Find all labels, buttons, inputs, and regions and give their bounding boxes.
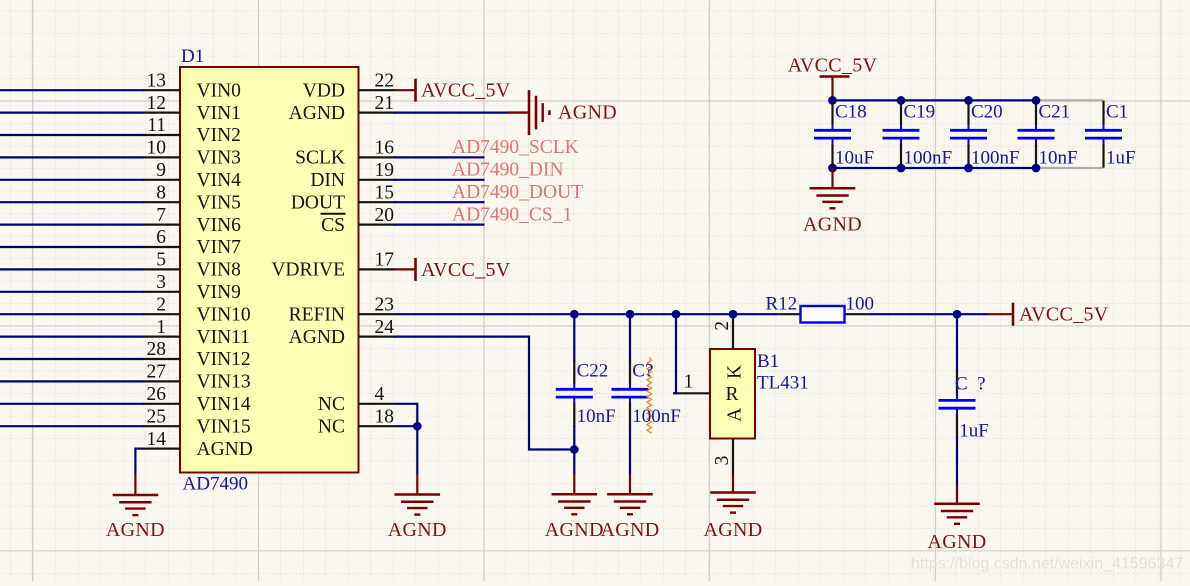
- IC D1 right pin 15 (DOUT): [291, 182, 396, 213]
- wire to VIN8 from left edge: [0, 268, 144, 270]
- svg-text:VIN13: VIN13: [197, 372, 251, 393]
- svg-text:VIN8: VIN8: [197, 260, 241, 281]
- svg-text:C ?: C ?: [955, 374, 986, 395]
- svg-text:24: 24: [375, 317, 395, 338]
- IC D1 right pin 22 (VDD): [303, 70, 396, 101]
- IC D1 left pin 14 (AGND): [143, 429, 253, 460]
- svg-text:1: 1: [156, 317, 166, 338]
- svg-text:NC: NC: [318, 394, 345, 415]
- wire AGND pin14 to ground: [135, 449, 144, 475]
- capacitor C21: [1018, 101, 1055, 168]
- resistor R12 left pin: [778, 313, 800, 315]
- svg-text:17: 17: [375, 250, 395, 271]
- svg-text:C18: C18: [835, 102, 867, 123]
- svg-text:AGND: AGND: [106, 519, 165, 541]
- svg-text:4: 4: [375, 384, 385, 405]
- svg-text:3: 3: [156, 272, 166, 293]
- IC D1 left pin 28 (VIN12): [143, 339, 251, 370]
- junction on REFIN rail x=574.3: [570, 310, 579, 319]
- wire to VIN1 from left edge: [0, 111, 144, 113]
- wire to VIN3 from left edge: [0, 156, 144, 158]
- ground AGND at NC pins: [395, 495, 441, 515]
- svg-text:TL431: TL431: [757, 373, 809, 394]
- wire to VIN15 from left edge: [0, 425, 144, 427]
- junction top rail at C20: [964, 96, 973, 105]
- svg-text:AD7490: AD7490: [183, 474, 248, 495]
- IC D1 left pin 25 (VIN15): [143, 406, 251, 437]
- wire to VIN14 from left edge: [0, 403, 144, 405]
- wire to VIN2 from left edge: [0, 134, 144, 136]
- ground AGND at C? 1uF: [934, 504, 980, 524]
- ground lead TL431: [732, 475, 734, 493]
- capacitor C? (100nF): [612, 360, 649, 427]
- wire junction down to C? 1uF: [956, 314, 958, 372]
- ground AGND at TL431: [710, 493, 756, 513]
- svg-text:25: 25: [147, 406, 167, 427]
- capacitor C20: [950, 101, 987, 168]
- wire AD7490_CS_1: [394, 224, 485, 226]
- IC D1 right pin 21 (AGND): [289, 93, 396, 124]
- capacitor C19: [883, 101, 920, 168]
- svg-text:2: 2: [156, 294, 166, 315]
- svg-text:AD7490_CS_1: AD7490_CS_1: [452, 204, 572, 225]
- svg-text:AD7490_SCLK: AD7490_SCLK: [452, 137, 579, 158]
- power port AVCC_5V at VDD: [416, 79, 511, 102]
- IC D1 right pin 19 (DIN): [310, 160, 395, 191]
- svg-text:A: A: [724, 408, 745, 422]
- svg-text:CS: CS: [321, 215, 345, 236]
- wire to VIN10 from left edge: [0, 313, 144, 315]
- svg-text:NC: NC: [318, 416, 345, 437]
- capacitor C22: [556, 360, 593, 427]
- junction bottom rail at C19: [897, 164, 906, 173]
- svg-text:VIN2: VIN2: [197, 125, 241, 146]
- junction top rail at C18: [828, 96, 837, 105]
- wire REFIN down to C22: [573, 314, 575, 361]
- wire C22 lower: [573, 425, 575, 474]
- IC D1 left pin 1 (VIN11): [143, 317, 250, 348]
- junction top rail at C19: [897, 96, 906, 105]
- svg-text:VIN12: VIN12: [197, 349, 251, 370]
- IC D1 left pin 10 (VIN3): [143, 138, 241, 169]
- TL431 pin 1 (R, ref): [673, 371, 739, 405]
- ground AGND at C22: [552, 494, 598, 514]
- wire AD7490_DIN: [394, 179, 485, 181]
- svg-text:C1: C1: [1106, 102, 1128, 123]
- svg-text:19: 19: [375, 160, 395, 181]
- svg-text:AGND: AGND: [545, 519, 604, 541]
- junction on REFIN rail x=733: [729, 310, 738, 319]
- svg-text:C20: C20: [971, 102, 1003, 123]
- svg-text:1uF: 1uF: [959, 421, 989, 442]
- svg-text:26: 26: [147, 384, 167, 405]
- svg-text:C21: C21: [1039, 102, 1071, 123]
- svg-text:AVCC_5V: AVCC_5V: [1019, 304, 1109, 326]
- TL431 pin 2 (K, cathode): [712, 317, 745, 379]
- junction NC pins: [413, 422, 422, 431]
- junction bottom rail at C21: [1032, 164, 1041, 173]
- svg-text:VIN0: VIN0: [197, 80, 241, 101]
- resistor R12: [801, 306, 845, 323]
- svg-text:VIN1: VIN1: [197, 103, 241, 124]
- IC D1 right pin 4 (NC): [318, 384, 396, 415]
- wire C? lower: [629, 425, 631, 474]
- svg-text:100nF: 100nF: [904, 148, 953, 169]
- wire to VIN13 from left edge: [0, 380, 144, 382]
- IC D1 left pin 9 (VIN4): [143, 160, 241, 191]
- svg-text:R12: R12: [766, 294, 798, 315]
- svg-text:27: 27: [147, 362, 167, 383]
- wire bottom rail C21-C1 (gray): [1036, 167, 1104, 169]
- svg-text:10nF: 10nF: [1039, 148, 1078, 169]
- junction top rail at C21: [1032, 96, 1041, 105]
- svg-text:2: 2: [712, 321, 733, 331]
- svg-text:VIN5: VIN5: [197, 192, 241, 213]
- IC D1 left pin 26 (VIN14): [143, 384, 251, 415]
- IC D1 left pin 5 (VIN8): [143, 250, 241, 281]
- IC D1 left pin 13 (VIN0): [143, 70, 241, 101]
- IC D1 left pin 6 (VIN7): [143, 227, 241, 258]
- svg-text:100nF: 100nF: [971, 148, 1020, 169]
- svg-text:AGND: AGND: [289, 327, 345, 348]
- svg-text:AVCC_5V: AVCC_5V: [421, 80, 511, 102]
- svg-text:https://blog.csdn.net/weixin_4: https://blog.csdn.net/weixin_41596347: [911, 555, 1183, 572]
- svg-text:C19: C19: [904, 102, 936, 123]
- power port AVCC_5V right: [1013, 303, 1109, 326]
- svg-text:100nF: 100nF: [632, 406, 681, 427]
- wire C? 1uF lower: [956, 436, 958, 486]
- IC D1 right pin 20 (CS): [321, 205, 396, 236]
- IC D1 left pin 7 (VIN6): [143, 205, 241, 236]
- svg-text:R: R: [725, 384, 738, 405]
- IC D1 left pin 8 (VIN5): [143, 182, 241, 213]
- svg-text:REFIN: REFIN: [289, 304, 345, 325]
- svg-text:10: 10: [147, 138, 167, 159]
- ground lead C22: [573, 474, 575, 494]
- svg-text:23: 23: [375, 294, 395, 315]
- wire to VIN11 from left edge: [0, 336, 144, 338]
- svg-text:7: 7: [156, 205, 166, 226]
- regulator B1 TL431 body: [710, 349, 755, 439]
- svg-text:VIN14: VIN14: [197, 394, 251, 415]
- ground lead NC: [416, 474, 418, 495]
- IC D1 left pin 12 (VIN1): [143, 93, 241, 124]
- svg-text:D1: D1: [181, 46, 204, 67]
- IC D1 left pin 27 (VIN13): [143, 362, 251, 393]
- svg-text:10uF: 10uF: [835, 148, 874, 169]
- svg-text:5: 5: [156, 250, 166, 271]
- svg-text:DOUT: DOUT: [291, 192, 345, 213]
- wire top rail C21-C1 (gray): [1036, 99, 1104, 101]
- svg-text:B1: B1: [757, 351, 779, 372]
- ground lead C?: [629, 474, 631, 494]
- svg-text:10nF: 10nF: [577, 406, 616, 427]
- ground lead at pin14: [134, 474, 136, 495]
- svg-text:VIN3: VIN3: [197, 148, 241, 169]
- wire VDD pin22 to AVCC_5V: [396, 89, 415, 91]
- svg-text:VIN6: VIN6: [197, 215, 242, 236]
- svg-text:14: 14: [147, 429, 167, 450]
- svg-text:AGND: AGND: [803, 214, 862, 236]
- svg-text:28: 28: [147, 339, 167, 360]
- IC D1 right pin 24 (AGND): [289, 317, 396, 348]
- wire REFIN rail left segment: [396, 313, 779, 315]
- svg-text:9: 9: [156, 160, 166, 181]
- svg-text:AVCC_5V: AVCC_5V: [788, 55, 878, 77]
- junction bottom rail at C20: [964, 164, 973, 173]
- wire REFIN to AVCC_5V power lead: [989, 313, 1013, 315]
- wire to VIN5 from left edge: [0, 201, 144, 203]
- svg-text:20: 20: [375, 205, 395, 226]
- wire AD7490_SCLK: [394, 156, 485, 158]
- svg-text:VIN9: VIN9: [197, 282, 241, 303]
- IC D1 right pin 17 (VDRIVE): [271, 250, 395, 281]
- capacitor C1: [1085, 101, 1122, 168]
- svg-text:1uF: 1uF: [1106, 148, 1136, 169]
- svg-text:VIN4: VIN4: [197, 170, 242, 191]
- wire REFIN down to TL431 pin1: [674, 314, 676, 393]
- junction bottom rail at C18: [828, 164, 837, 173]
- error marker zigzag at C?: [647, 358, 652, 434]
- wire to VIN6 from left edge: [0, 224, 144, 226]
- svg-text:AVCC_5V: AVCC_5V: [421, 259, 511, 281]
- wire to VIN4 from left edge: [0, 179, 144, 181]
- junction C22/pin24: [570, 445, 579, 454]
- wire to VIN0 from left edge: [0, 89, 144, 91]
- wire AGND pin21: [394, 111, 509, 113]
- svg-text:AGND: AGND: [388, 519, 447, 541]
- capacitor C? (1uF): [939, 371, 976, 438]
- wire bottom rail C18-C21: [833, 167, 1037, 169]
- IC D1 left pin 2 (VIN10): [143, 294, 251, 325]
- wire top rail C18-C21: [833, 99, 1037, 101]
- svg-text:DIN: DIN: [310, 170, 345, 191]
- wire REFIN down to C?: [629, 314, 631, 361]
- svg-text:C?: C?: [632, 361, 653, 382]
- svg-text:11: 11: [147, 115, 166, 136]
- svg-text:1: 1: [684, 371, 694, 392]
- svg-text:AD7490_DOUT: AD7490_DOUT: [452, 182, 583, 203]
- svg-text:C22: C22: [577, 361, 609, 382]
- svg-text:VIN10: VIN10: [197, 304, 251, 325]
- wire NC junction down to ground: [416, 426, 418, 474]
- IC D1 right pin 18 (NC): [318, 406, 396, 437]
- IC D1 body (AD7490): [180, 67, 359, 473]
- svg-text:AGND: AGND: [289, 103, 345, 124]
- wire to VIN12 from left edge: [0, 358, 144, 360]
- wire AGND pin24 down to C22 branch: [394, 337, 574, 450]
- svg-text:3: 3: [712, 456, 733, 466]
- svg-text:6: 6: [156, 227, 166, 248]
- svg-text:VDD: VDD: [303, 80, 345, 101]
- svg-text:8: 8: [156, 182, 166, 203]
- svg-text:16: 16: [375, 138, 395, 159]
- svg-text:K: K: [724, 365, 745, 379]
- svg-text:SCLK: SCLK: [295, 148, 345, 169]
- wire AD7490_DOUT: [394, 201, 485, 203]
- ground AGND at pin14: [113, 495, 159, 515]
- svg-text:100: 100: [846, 294, 875, 315]
- capacitor C18: [814, 101, 851, 168]
- junction on REFIN rail x=957: [953, 310, 962, 319]
- power port AVCC_5V (bar) above C18: [788, 55, 878, 101]
- ground lead below C18: [831, 168, 833, 188]
- junction on REFIN rail x=630: [626, 310, 635, 319]
- junction on REFIN rail x=676: [672, 310, 681, 319]
- ground AGND below C18: [810, 188, 856, 208]
- svg-text:13: 13: [147, 70, 167, 91]
- wire to VIN9 from left edge: [0, 291, 144, 293]
- wire NC pin18: [396, 425, 418, 427]
- power port AVCC_5V at VDRIVE: [416, 258, 511, 281]
- svg-text:VIN11: VIN11: [197, 327, 250, 348]
- wire VDRIVE pin17 to AVCC_5V: [396, 268, 415, 270]
- IC D1 left pin 3 (VIN9): [143, 272, 241, 303]
- IC D1 right pin 16 (SCLK): [295, 138, 395, 169]
- svg-text:12: 12: [147, 93, 167, 114]
- svg-text:AGND: AGND: [704, 519, 763, 541]
- ground AGND at C?: [607, 494, 653, 514]
- TL431 pin 3 (A, anode): [712, 408, 745, 476]
- svg-text:18: 18: [375, 406, 395, 427]
- svg-text:VIN7: VIN7: [197, 237, 242, 258]
- resistor R12 right pin: [845, 313, 868, 315]
- IC D1 left pin 11 (VIN2): [143, 115, 241, 146]
- svg-text:21: 21: [375, 93, 395, 114]
- wire to VIN7 from left edge: [0, 246, 144, 248]
- svg-text:22: 22: [375, 70, 395, 91]
- ground lead C? 1uF: [956, 486, 958, 504]
- wire REFIN rail right segment (after R12): [867, 313, 988, 315]
- svg-text:AGND: AGND: [601, 519, 660, 541]
- svg-text:AGND: AGND: [558, 102, 617, 124]
- IC D1 right pin 23 (REFIN): [289, 294, 396, 325]
- svg-text:VDRIVE: VDRIVE: [271, 260, 345, 281]
- svg-text:AD7490_DIN: AD7490_DIN: [452, 160, 564, 181]
- svg-text:AGND: AGND: [928, 531, 987, 553]
- power ground AGND at pin21 (rotated): [508, 90, 617, 135]
- wire NC pin4: [396, 404, 418, 426]
- svg-text:AGND: AGND: [197, 439, 253, 460]
- svg-text:VIN15: VIN15: [197, 416, 251, 437]
- svg-text:15: 15: [375, 182, 395, 203]
